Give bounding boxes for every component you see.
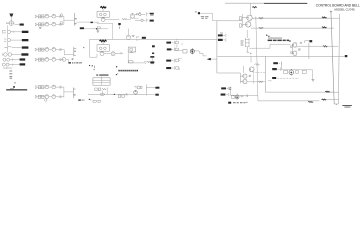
switch contact label S1b (dark) [150, 61, 154, 63]
connector plug P2 [13, 31, 28, 33]
bottom-left ground dot [89, 99, 90, 100]
volume control R1 [6, 21, 14, 26]
bus note text [220, 33, 223, 35]
connector plug P5 [13, 53, 28, 55]
parts list text row [118, 70, 138, 72]
input transformer T3 [2, 53, 13, 57]
splice blob on wire [91, 22, 93, 23]
muting coil L5 (dark) [190, 48, 194, 54]
node label text [201, 16, 209, 18]
channel1 end cap C11 [60, 14, 63, 17]
playback head label (dark) [99, 40, 106, 42]
relay K2 coil [135, 19, 143, 21]
phono input jack J2 [2, 63, 19, 66]
relay K2 contact wire [143, 18, 148, 22]
bottom-left tick [90, 99, 91, 101]
connector plug P3 [13, 39, 28, 41]
branch terminal S2b (dark) [155, 94, 158, 96]
microphone MIC1 [9, 13, 13, 16]
regulator transistor Q8 [293, 43, 297, 48]
base resistor stub 1 [290, 46, 292, 48]
terminal TB2 label (dark) [142, 37, 146, 39]
collector drop vertical (long) [256, 17, 258, 101]
long B+ distribution wire [218, 55, 345, 57]
monitor branch wire [128, 52, 145, 64]
alarm jack label J13 (dark) [272, 68, 280, 71]
bias marks under channel 2 [39, 27, 41, 30]
control bus vertical [217, 21, 241, 73]
ladder bottom closure [334, 104, 338, 105]
channel 3-4 junction wire [65, 50, 74, 56]
speaker return wire [258, 100, 319, 102]
output stage drop 1 [250, 56, 252, 62]
base bias bracket [242, 14, 247, 27]
AC mains line (dark segment) [264, 2, 307, 4]
fuse label F2 (dark) [152, 53, 154, 55]
wire playback chain [104, 53, 111, 55]
regulator right rail [308, 43, 310, 59]
bell terminal dash text [233, 101, 246, 104]
wire column bus [6, 25, 8, 52]
erase head resistor R20 [122, 18, 128, 20]
svg-text:MODEL CU745: MODEL CU745 [334, 8, 355, 12]
muting output wire steps [194, 51, 206, 56]
plug P9 pin list text [72, 62, 82, 63]
bus tick 2 [74, 50, 76, 53]
rail transistor Q2 [126, 29, 130, 40]
collector rail wire upper [252, 17, 331, 19]
bus C tick 1 [73, 88, 75, 90]
B+ terminal (dark) [309, 40, 312, 42]
junction node dot [96, 28, 98, 30]
monitor cap box [129, 61, 133, 63]
speaker feed vertical 2 [265, 56, 334, 92]
bell jack label J10 (dark) [221, 87, 230, 96]
alarm dashed link [277, 77, 299, 79]
base resistor stub 2 [290, 52, 292, 54]
node wire to control bus [200, 13, 217, 20]
bottom branch vertical [146, 84, 155, 95]
meter box M1 [128, 47, 135, 52]
ladder top terminal [330, 11, 332, 13]
emitter resistor R33 [258, 81, 263, 83]
channel 1-2 output junction wire [64, 16, 74, 24]
bottom bias box row [95, 87, 108, 94]
plug P10 wire text [82, 99, 85, 102]
playback tube V15 [100, 52, 104, 56]
oscillator coil L2 [104, 13, 107, 16]
preamp channel 5 (V10,V11) [35, 85, 64, 89]
bell terminal blob (dark) [228, 102, 231, 104]
bell resistor R40 [240, 96, 243, 98]
ladder rung y18 [331, 17, 340, 19]
tick mark [117, 73, 118, 75]
connector plug P7 [20, 63, 26, 65]
connector plug P9 [68, 62, 71, 63]
rail resistor R31 [259, 27, 264, 29]
connector plug P6 [20, 58, 26, 60]
channel4 extra tube V9 [62, 58, 66, 62]
bell stub marks [245, 102, 248, 103]
jack strip J7 (dark label) [166, 66, 179, 70]
polarity mark P [72, 59, 73, 61]
oscillator input node dot (dark) [198, 12, 200, 14]
connector plug P4 [22, 46, 29, 48]
left stub wire into alarm row [268, 80, 271, 81]
schematic notes text (dark) [268, 38, 291, 42]
signal arrow A1 (dark) [205, 58, 210, 61]
short drop x253.5 [253, 73, 255, 84]
terminal AL (dark) [345, 55, 348, 57]
rung label y99 (dark) [322, 99, 327, 100]
vertical feed wire [97, 22, 113, 39]
wire bias tube to erase head [105, 19, 119, 21]
bias resistor Rb [239, 24, 241, 27]
bus jack label J9 (dark) [218, 38, 226, 41]
terminal dash pair [94, 66, 96, 68]
bell drive wire [230, 94, 257, 96]
bottom box B1 [118, 95, 121, 97]
mixer bus node A [73, 13, 75, 26]
preamp channel 1 (V1,V2) [35, 14, 64, 18]
small stub wire [178, 43, 182, 59]
jack bracket bus [176, 39, 178, 48]
AC mains line [225, 2, 264, 4]
oscillator block box U1 [97, 9, 109, 17]
bias mark upper [300, 42, 302, 43]
bell coil L6 (dark) [235, 94, 239, 100]
preamp channel 2 (V3,V4) [35, 22, 64, 26]
bus tick B+ [74, 17, 77, 20]
bell bracket [246, 95, 248, 97]
terminal strip TB2 ticks [136, 37, 139, 41]
bias tube V14 [101, 17, 105, 21]
relay K2 terminal label (dark) [150, 20, 154, 22]
terminal L mark [229, 87, 231, 89]
thermal dashed link [253, 71, 266, 73]
alarm box 2 [302, 70, 306, 73]
connector plug P8 [80, 27, 84, 29]
cathode cap under channel 6 [45, 99, 48, 102]
node stem [196, 11, 197, 13]
mains drop wire [250, 3, 252, 14]
bottom right reference text [342, 105, 352, 108]
monitor resistor R21 [147, 61, 150, 62]
decoupling network box [97, 27, 100, 29]
rail bypass marks [132, 36, 135, 37]
bottom amp main wire [88, 93, 146, 95]
ground stake GND1 [14, 82, 15, 84]
wire to terminal S2b [146, 94, 155, 96]
note text line [6, 89, 27, 91]
record head transistor Q1 [130, 13, 135, 19]
bottom box B2 [122, 95, 125, 97]
ladder rung y92 [328, 91, 338, 93]
table title text [96, 75, 108, 76]
emitter chain drop wire [246, 30, 248, 38]
connector plug P10 [78, 100, 81, 101]
schematic notes dots [266, 35, 270, 37]
output jack circle JACK [134, 90, 138, 95]
chassis ground dot [13, 86, 15, 88]
oscillator coil L1 [99, 13, 102, 16]
playback tube V16 [111, 52, 115, 56]
ground lug dots [89, 65, 93, 67]
alarm drive wire [281, 70, 312, 80]
emitter return vertical [243, 66, 245, 73]
rail resistor R30 [259, 17, 264, 19]
fuse label F1 (dark) [152, 45, 155, 47]
regulator output wire to ladder [297, 45, 338, 47]
bias equals mark [298, 49, 300, 50]
power transistor bracket [240, 73, 242, 83]
preamp channel 6 (V12,V13) [35, 95, 64, 99]
recorder head label (dark) [100, 7, 106, 9]
branch terminal S2a (dark) [155, 87, 159, 89]
mixer bus node B [73, 47, 75, 57]
junction dot [114, 94, 115, 95]
terminal dashes below T4 [119, 26, 121, 29]
alarm cap C31 [284, 70, 288, 73]
bottom relay cluster [134, 86, 142, 89]
preamp channel 3 (V5,V6) [35, 48, 64, 52]
relay K1 contact wire [141, 12, 148, 16]
emitter rail wire lower [251, 27, 334, 29]
muting circuit wire [175, 49, 183, 51]
solder dot 1 [116, 66, 117, 67]
mains fuse label (dark) [252, 7, 256, 8]
legend table [93, 76, 110, 85]
alarm terminal blob (dark) [272, 77, 276, 79]
power transistor Q6 [243, 74, 247, 78]
main B+ rail wire [90, 38, 217, 40]
collector top hook [305, 41, 310, 43]
bottom oval lamp DS1 [100, 93, 104, 96]
bell cap C30 [231, 96, 234, 98]
rung label y47 (dark) [323, 46, 328, 47]
bridge labels [241, 41, 244, 46]
speaker line label (dark) [308, 101, 313, 102]
input attenuator R2 [4, 46, 21, 49]
rectifier bridge rails [246, 38, 249, 47]
relay K1 coil [135, 12, 141, 16]
muting cap C20 [183, 50, 187, 53]
input transformer T1 [3, 30, 14, 34]
output resistor R32 [254, 64, 259, 66]
regulator feed staircase wire [249, 44, 290, 48]
emitter output wire [247, 81, 265, 83]
bottom cap C33 [126, 93, 127, 95]
wire mic to volume control [10, 17, 12, 21]
bus jack label J8 (dark) [218, 34, 226, 37]
output network Y1 [130, 51, 136, 52]
rail label W1 (dark) [322, 17, 327, 18]
bias resistor Ra [239, 17, 241, 20]
channel2 end cap C12 [60, 22, 63, 25]
jack strip J6 (dark label) [166, 59, 180, 63]
B+ rail drop wire [90, 39, 97, 57]
jack strip J4 (dark label) [166, 41, 178, 45]
alarm coil L7 (dark) [289, 69, 294, 76]
B+ feed wire [84, 28, 108, 30]
alarm box 1 [296, 71, 299, 74]
power bus ladder left rail [331, 11, 334, 104]
solder dot 2 [116, 74, 117, 75]
terminal blob T4 [118, 23, 120, 25]
bus tick 3 [74, 54, 76, 56]
bottom-left box 1 [93, 100, 96, 102]
auxiliary input J3 [3, 67, 12, 69]
bias mark equals [249, 75, 251, 76]
arrow output wire [211, 58, 217, 60]
ladder rung y99 [326, 98, 339, 100]
bottom-left box 2 [98, 100, 100, 102]
playback coil L3 [99, 47, 102, 50]
bus tick gnd [74, 22, 76, 25]
relay K1 terminal label (dark) [150, 13, 154, 16]
input transformer T2 [4, 38, 13, 41]
connector plug P1 [15, 24, 24, 26]
playback block box U2 [97, 42, 109, 51]
wire from mixer bus to bias tube [77, 21, 99, 23]
driver transistor Q4 [246, 22, 251, 27]
jack strip J5 (dark label) [167, 48, 179, 52]
output transistor Q5 [249, 67, 254, 72]
switch contact label S1a (dark) [150, 56, 154, 58]
bus C tick 2 [73, 94, 76, 97]
bridge rung 1 [245, 39, 250, 41]
bell jack label J11 (dark) [221, 93, 229, 96]
wire head to relay [128, 14, 139, 20]
bridge rung 2 [245, 42, 250, 44]
switch wire [144, 58, 152, 62]
regulator transistor Q9 [293, 51, 297, 56]
playback coil L4 [104, 47, 107, 50]
alarm ground hook [312, 80, 315, 82]
bridge output hook [247, 47, 252, 54]
regulator base bracket [292, 44, 293, 53]
mixer bus node C [72, 88, 74, 99]
power bus ladder right rail [338, 14, 339, 104]
ground symbol G1 [97, 29, 100, 33]
channel 5-6 junction wire [64, 87, 73, 97]
phono input jack J1 [3, 58, 20, 61]
pilot lamp mark [94, 69, 95, 70]
bus tick 1 [74, 47, 76, 49]
rung label y92 (dark) [325, 91, 330, 92]
channel4 tail wire [66, 60, 69, 63]
driver transistor Q3 [247, 15, 252, 20]
power transistor Q7 [243, 79, 247, 83]
terminal strip TB1 [9, 71, 12, 78]
preamp channel 4 (V7,V8) [35, 58, 64, 62]
test point TP1 [83, 47, 85, 48]
alarm bracket vertical [280, 62, 282, 70]
rail label W2 (dark) [322, 27, 327, 28]
bus wire to bias bracket [217, 20, 242, 22]
bridge rung 3 [245, 45, 250, 47]
alarm jack label J12 (dark) [273, 62, 281, 65]
coupling caps [115, 52, 123, 54]
